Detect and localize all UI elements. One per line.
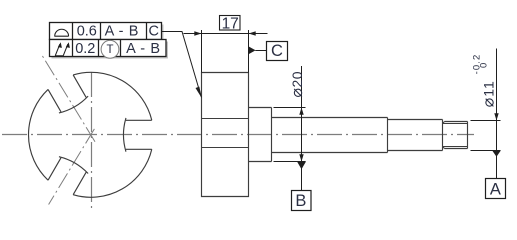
wire threaded end outline <box>443 122 468 149</box>
svg-text:C: C <box>271 42 283 60</box>
node datum A filled triangle <box>492 151 501 157</box>
wire extension line left of 17 dim <box>201 30 203 73</box>
node datum C box <box>267 42 288 61</box>
wire datum C leader <box>255 50 266 52</box>
svg-text:0.6: 0.6 <box>77 24 97 40</box>
svg-text:A: A <box>490 180 501 198</box>
node feature control frame shadow <box>52 25 164 42</box>
node right arrowhead of 17 dim <box>249 31 256 35</box>
wire diameter-20 cylinder <box>249 108 272 162</box>
node left arrowhead of 17 dim <box>194 31 201 35</box>
node front view notch/arc segment 2 <box>6 74 114 182</box>
node datum B filled triangle <box>297 162 306 170</box>
wire 240-degree diagonal centerline <box>49 129 95 205</box>
node 17 basic dimension box <box>220 16 241 31</box>
wire extension lines of dia20 dimension <box>274 108 306 162</box>
svg-text:T: T <box>106 44 113 56</box>
svg-text:A - B: A - B <box>105 24 139 40</box>
wire vertical centerline of front view <box>91 72 93 210</box>
node tangent plane modifier circled T <box>101 40 119 58</box>
wire leader from feature control frame to flange face <box>162 32 202 98</box>
node feature control frame row 1 (profile of surface 0.6 A-B C) <box>50 23 162 40</box>
svg-text:-0.2: -0.2 <box>472 54 483 75</box>
wire flange notch silhouette lines <box>202 119 249 148</box>
wire dia20 dimension line <box>301 66 303 191</box>
wire middle cylinder <box>272 118 388 153</box>
node datum C filled triangle <box>249 46 256 54</box>
node dia20 top arrowhead <box>299 108 303 115</box>
wire 120-degree diagonal centerline <box>42 56 95 142</box>
svg-text:A - B: A - B <box>126 41 160 57</box>
node datum B box <box>292 191 312 211</box>
wire dia11 dimension line <box>496 49 498 179</box>
svg-text:B: B <box>295 192 306 210</box>
svg-text:⌀20: ⌀20 <box>289 71 306 98</box>
node dia20 bottom arrowhead <box>299 154 303 161</box>
node leader arrowhead on flange left face <box>196 87 203 99</box>
node profile of a surface symbol <box>54 29 68 36</box>
wire extension line right of 17 dim / datum C attach <box>248 30 250 73</box>
wire extension lines of dia11 dimension <box>471 121 501 151</box>
svg-text:17: 17 <box>222 16 239 33</box>
node dia11 arrowhead pointing down <box>494 113 498 120</box>
node front view notch/arc segment 1 <box>73 72 152 151</box>
wire 17 dimension line <box>184 33 268 35</box>
svg-text:⌀11: ⌀11 <box>480 80 497 107</box>
node total runout symbol <box>55 44 68 56</box>
node front view notch/arc segment 3 <box>46 111 154 219</box>
node datum A box <box>486 179 506 199</box>
svg-text:0.2: 0.2 <box>75 41 95 57</box>
wire thread minor diameter lines <box>443 124 468 147</box>
svg-text:C: C <box>148 24 158 40</box>
node feature control frame row 2 (total runout 0.2 T A-B) <box>50 40 167 57</box>
wire flange outline (side view) <box>202 73 249 197</box>
wire horizontal centerline (shaft axis) <box>2 134 474 136</box>
wire diameter-11 cylinder <box>388 120 443 151</box>
